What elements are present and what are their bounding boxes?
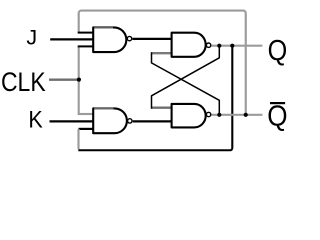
junction: Q to V1 feedback (230, 44, 234, 48)
svg-text:K: K (28, 105, 43, 133)
nand gate G4 bottom-right 2-input body (172, 104, 206, 128)
nand gate G2 bottom-left 3-input body (93, 108, 127, 133)
wire: cross-coupling from Q node to bottom-right gate upper input (152, 46, 220, 109)
nand gate G1 top-left 3-input body (93, 27, 126, 52)
wire: J input line (50, 38, 93, 40)
wire: CLK vertical lower branch (78, 80, 80, 114)
nand gate G2 bubble (128, 119, 132, 123)
wire: stub into top-left gate input 3 (78, 45, 94, 47)
wire: top-right gate lower input stub (152, 52, 172, 54)
nand gate G1 top edge soft overdraw (94, 26, 113, 28)
nand gate G3 top-right 2-input body (172, 33, 206, 57)
junction: Qbar to cross-coupling (217, 113, 221, 117)
wire: Q output line (212, 45, 263, 47)
wire: stub into bottom-left gate input 1 (78, 113, 94, 115)
nand gate G1 bubble (127, 36, 131, 40)
wire: bottom feedback wire from Q across the bottom (78, 46, 232, 151)
nand gate G2 top edge soft overdraw (94, 107, 113, 109)
wire: top-left gate output to top-right gate input (132, 38, 171, 40)
wire: CLK input line (49, 78, 79, 80)
wire: cross-coupling from Qbar node to top-right gate lower input (152, 52, 220, 115)
junction: CLK node (77, 78, 81, 82)
nand gate G4 bubble (206, 112, 210, 116)
wire: K input line (50, 120, 94, 122)
label Qbar overbar (270, 102, 285, 104)
wire: top feedback wire from Qbar up and across the top (79, 11, 246, 115)
wire: stub into bottom-left gate input 3 (79, 128, 94, 130)
wire: bottom feedback corner vertical (77, 129, 79, 149)
wire: CLK vertical upper branch (78, 46, 80, 79)
svg-text:CLK: CLK (1, 67, 46, 97)
junction: Q to cross-coupling (217, 44, 221, 48)
nand gate G3 bubble (206, 43, 210, 47)
wire: bottom-right gate upper input stub (152, 106, 172, 108)
wire: bottom-left gate output to bottom-right gate input (133, 120, 172, 122)
junction: Qbar to V2 feedback (244, 113, 248, 117)
wire: stub into top-left gate input 1 (78, 32, 94, 34)
svg-text:J: J (26, 26, 37, 50)
wire: Qbar output line (212, 114, 263, 116)
svg-text:Q: Q (268, 33, 288, 66)
